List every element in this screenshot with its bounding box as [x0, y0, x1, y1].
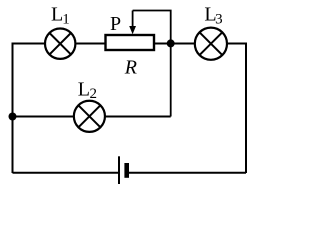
wire: L3 to right vertical [228, 44, 246, 174]
wire: left vertical from top-left corner to bottom-left corner [12, 44, 14, 174]
lamp L3 [195, 28, 227, 60]
wire: top-left horizontal to lamp L1 [12, 43, 45, 45]
wire: bottom left to battery [13, 172, 120, 174]
wire: wiper loop to junction [133, 11, 171, 44]
wire: L1 to rheostat [76, 43, 104, 45]
wire: rheostat to lamp L3 [155, 43, 194, 45]
rheostat wiper arrow [129, 11, 136, 35]
node junction dot (wiper/L2/L3) [167, 39, 175, 47]
node junction dot (left, L2 branch) [9, 113, 17, 121]
lamp L1 [45, 29, 75, 59]
svg-text:R: R [124, 56, 137, 78]
wire: junction down to L2 branch [170, 43, 172, 116]
battery B1 [119, 156, 129, 184]
rheostat R body [106, 35, 155, 50]
svg-text:P: P [110, 13, 121, 35]
lamp L2 [74, 101, 105, 132]
wire: L2 branch left segment [13, 116, 74, 118]
wire: battery to bottom right [129, 172, 246, 174]
wire: L2 branch right segment [106, 116, 171, 118]
